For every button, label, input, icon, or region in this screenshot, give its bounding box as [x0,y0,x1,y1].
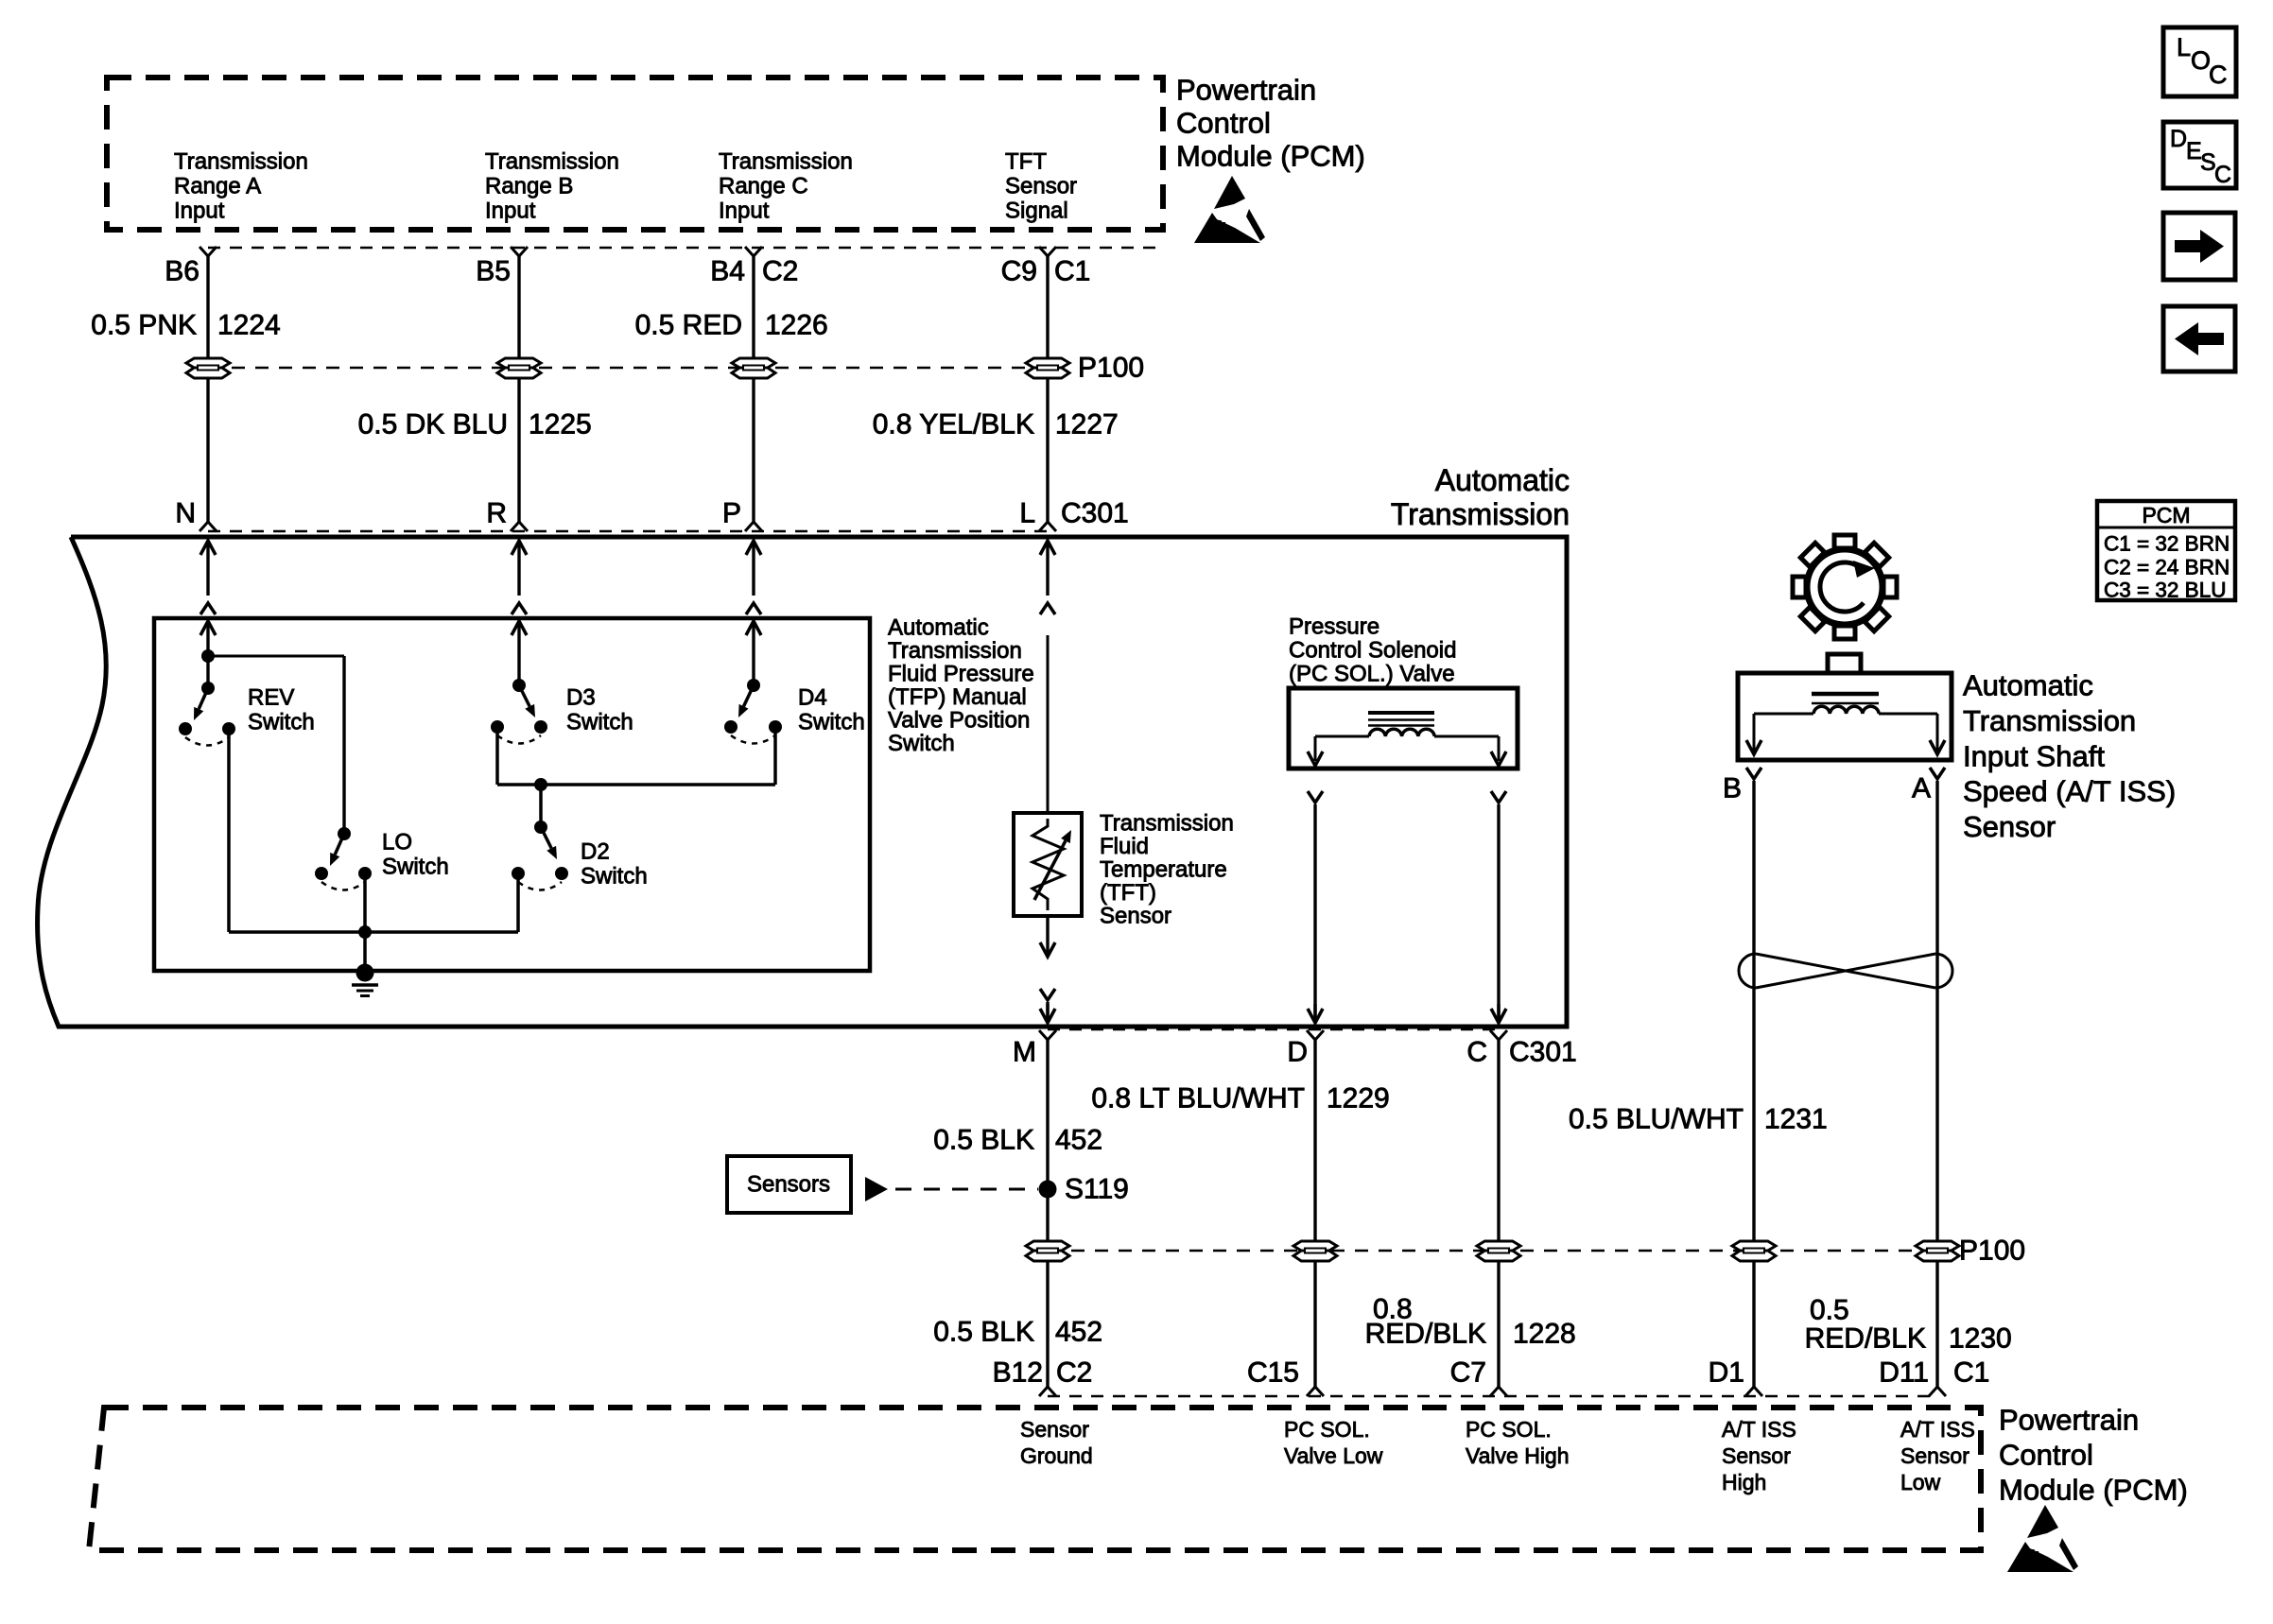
pin function label: Transmission Range C Input [719,149,853,224]
fork D [1307,1030,1324,1040]
svg-text:B6: B6 [165,256,200,287]
label Pressure Control Solenoid (PC SOL.) Valve [1289,614,1456,687]
svg-text:RED/BLK: RED/BLK [1805,1323,1926,1355]
svg-text:(PC SOL.) Valve: (PC SOL.) Valve [1289,662,1455,687]
svg-text:C1 = 32 BRN: C1 = 32 BRN [2104,532,2230,556]
svg-text:O: O [2191,46,2211,75]
svg-text:1224: 1224 [217,310,281,341]
svg-text:Sensor: Sensor [1100,904,1171,929]
D4 switch [724,679,782,744]
svg-text:1225: 1225 [529,409,592,441]
REV switch [179,649,235,746]
svg-text:B12: B12 [993,1357,1043,1389]
previous arrow button box [2163,306,2235,371]
svg-text:Pressure: Pressure [1289,614,1379,640]
svg-text:M: M [1013,1037,1036,1068]
connector P100 lens on wire 1231 [1732,1241,1776,1261]
svg-text:Switch: Switch [581,864,648,890]
svg-text:0.5 PNK: 0.5 PNK [91,310,197,341]
svg-text:0.5 DK BLU: 0.5 DK BLU [358,409,508,441]
svg-text:D11: D11 [1879,1357,1929,1389]
Sensors reference box [727,1156,851,1213]
svg-text:REV: REV [248,685,294,711]
connector P100 lens on wire 1228 [1477,1241,1520,1261]
svg-text:C1: C1 [1054,256,1090,287]
svg-text:D4: D4 [798,685,827,711]
svg-text:Signal: Signal [1005,199,1068,224]
wire 1226 (B4 to P) [745,247,762,531]
svg-text:Range A: Range A [174,174,261,199]
svg-text:Input Shaft: Input Shaft [1963,739,2105,772]
wire into D3 switch [512,621,527,685]
wire 1225 (B5 to R) [511,247,528,531]
svg-text:Control: Control [1176,107,1271,140]
wire into REV switch [200,621,216,656]
wire label 0.5 PNK 1224 [91,310,280,341]
svg-text:Control: Control [1999,1439,2093,1472]
svg-text:Ground: Ground [1020,1443,1093,1468]
svg-text:Input: Input [719,199,770,224]
svg-text:Valve High: Valve High [1466,1443,1570,1468]
PC SOL valve high lead (C) [1434,736,1506,766]
wire 1227 (C9 to L) [1039,247,1056,531]
svg-text:D1: D1 [1709,1357,1744,1389]
svg-text:C: C [1466,1037,1487,1068]
connector P100 (top, dashed pass-through line) [208,367,1048,370]
svg-text:A/T ISS: A/T ISS [1722,1417,1796,1442]
svg-text:High: High [1722,1470,1766,1494]
svg-text:1229: 1229 [1327,1083,1390,1114]
svg-text:C: C [2214,162,2231,188]
svg-text:L: L [1019,498,1035,529]
label Automatic Transmission Input Shaft Speed (A/T ISS) Sensor [1963,669,2176,844]
connector C301 line (bottom, thin dashed) [1048,1028,1499,1031]
svg-text:B5: B5 [476,256,511,287]
wire label 0.8 RED/BLK 1228 [1365,1294,1576,1350]
svg-text:N: N [175,498,196,529]
svg-text:D2: D2 [581,839,610,865]
label D2 Switch [581,839,648,890]
PCM module box (bottom, dashed) [89,1408,1981,1550]
svg-text:Transmission: Transmission [888,638,1022,664]
svg-text:Valve Position: Valve Position [888,708,1030,734]
label D4 Switch [798,685,865,735]
connector line at PCM (bottom, thin dashed) [1048,1395,1937,1398]
svg-text:Sensor: Sensor [1963,810,2056,843]
svg-text:Sensor: Sensor [1020,1417,1089,1442]
svg-text:P100: P100 [1959,1235,2025,1267]
twisted pair symbol [1739,954,1952,988]
svg-text:L: L [2177,33,2191,61]
connector P100 lens on wire 1224 [186,358,230,378]
connector P100 lens on wire 452 [1026,1241,1069,1261]
svg-text:0.5: 0.5 [1810,1295,1849,1326]
svg-text:A: A [1912,773,1931,804]
svg-text:C: C [2209,60,2228,89]
svg-text:1231: 1231 [1764,1104,1828,1135]
svg-text:(TFT): (TFT) [1100,880,1156,906]
svg-text:1230: 1230 [1949,1323,2012,1355]
D2 switch [512,785,568,890]
svg-text:R: R [486,498,507,529]
svg-text:Sensor: Sensor [1722,1443,1791,1468]
splice S119 [1039,1174,1129,1205]
svg-text:Automatic: Automatic [888,615,989,641]
Pressure Control Solenoid (PC SOL.) Valve box [1289,688,1518,769]
wire bus D3-D4 [497,778,775,791]
svg-text:0.8 LT BLU/WHT: 0.8 LT BLU/WHT [1091,1083,1305,1114]
PC SOL coil [1368,713,1434,736]
svg-text:RED/BLK: RED/BLK [1365,1319,1486,1350]
svg-text:0.8 YEL/BLK: 0.8 YEL/BLK [873,409,1034,441]
svg-text:Range B: Range B [485,174,573,199]
svg-text:Switch: Switch [566,710,633,735]
svg-text:1227: 1227 [1055,409,1119,441]
svg-text:Switch: Switch [382,855,449,880]
wire label 0.8 YEL/BLK 1227 [873,409,1119,441]
arrow from Sensors box [865,1177,888,1201]
connector P100 lens on wire 1227 [1026,358,1069,378]
wire entry arrows at AT box (1225/R) [512,541,527,614]
svg-text:Fluid Pressure: Fluid Pressure [888,662,1034,687]
svg-text:S119: S119 [1065,1174,1129,1205]
ESD sensitive-device symbol (bottom) [2007,1505,2078,1572]
label Powertrain Control Module (PCM) bottom [1999,1404,2188,1507]
LOC button box [2163,27,2236,96]
wire PC SOL high to AT bottom [1491,791,1506,1023]
svg-text:TFT: TFT [1005,149,1047,175]
svg-text:D3: D3 [566,685,596,711]
connector P100 lens on wire 1230 [1916,1241,1959,1261]
svg-text:C2 = 24 BRN: C2 = 24 BRN [2104,556,2230,579]
pin function label PC SOL. Valve Low [1284,1417,1383,1468]
wire label 0.5 BLK 452 (lower) [933,1317,1102,1348]
svg-text:1228: 1228 [1513,1319,1576,1350]
svg-text:LO: LO [382,830,412,855]
svg-text:Sensors: Sensors [747,1172,830,1198]
svg-text:Valve Low: Valve Low [1284,1443,1383,1468]
svg-text:A/T ISS: A/T ISS [1900,1417,1975,1442]
svg-text:C7: C7 [1450,1357,1486,1389]
svg-text:Switch: Switch [798,710,865,735]
svg-text:0.5 BLK: 0.5 BLK [933,1317,1034,1348]
svg-text:C3 = 32 BLU: C3 = 32 BLU [2104,579,2226,602]
connector P100 lens on wire 1225 [497,358,541,378]
ISS lead B [1746,714,1813,754]
wire into D4 switch [746,621,761,685]
svg-text:Range C: Range C [719,174,808,199]
wire label 0.5 BLK 452 (upper) [933,1125,1102,1156]
svg-text:Sensor: Sensor [1005,174,1077,199]
svg-text:Transmission: Transmission [719,149,853,175]
svg-text:PCM: PCM [2142,503,2190,527]
ESD sensitive-device symbol (top) [1194,176,1265,243]
label Automatic Transmission Fluid Pressure (TFP) Manual Valve Position Switch [888,615,1034,757]
Automatic Transmission enclosure box [38,537,1567,1027]
svg-text:Automatic: Automatic [1435,463,1570,497]
svg-text:Speed (A/T ISS): Speed (A/T ISS) [1963,775,2176,808]
svg-text:C301: C301 [1509,1037,1577,1068]
wire TFT sensor to M (with arrows) [1040,916,1055,1023]
pin function label: Transmission Range B Input [485,149,619,224]
wire 1231 (B to D1) [1745,768,1762,1396]
PCM connector legend box [2097,501,2235,602]
svg-text:0.5 BLK: 0.5 BLK [933,1125,1034,1156]
pin function label PC SOL. Valve High [1466,1417,1570,1468]
svg-text:Sensor: Sensor [1900,1443,1969,1468]
wire D4 right contact to bus [773,727,777,785]
svg-text:PC SOL.: PC SOL. [1284,1417,1370,1442]
wire PC SOL low to AT bottom [1308,791,1323,1023]
wire bottom bus of TFP switch [229,925,518,939]
gear / rotating shaft icon [1793,535,1897,639]
wire label 0.5 RED 1226 [635,310,828,341]
svg-text:Module (PCM): Module (PCM) [1176,140,1365,173]
pin function label A/T ISS Sensor High [1722,1417,1796,1494]
PC SOL valve low lead (D) [1308,736,1369,766]
svg-text:D: D [2170,126,2187,152]
svg-text:B4: B4 [710,256,745,287]
TFT sensor (thermistor) [1014,813,1082,916]
wire LO right contact down [363,873,367,932]
svg-text:0.5 RED: 0.5 RED [635,310,742,341]
wire label 0.5 RED/BLK 1230 [1805,1295,2012,1355]
next arrow button box [2163,213,2235,280]
svg-text:C1: C1 [1953,1357,1989,1389]
A/T ISS sensor box [1738,654,1952,760]
connector line (PCM harness, thin dashed) [208,247,1163,250]
svg-text:Powertrain: Powertrain [1176,74,1316,107]
LO switch [315,827,372,890]
svg-text:Transmission: Transmission [485,149,619,175]
wire entry arrows at AT box (1224/N) [200,541,216,614]
ground (TFP switch common) [352,932,378,996]
fork M [1039,1030,1056,1040]
wire 1229 (D to C15) [1307,1040,1324,1396]
wire label 0.5 BLU/WHT 1231 [1569,1104,1828,1135]
svg-text:P100: P100 [1078,353,1144,384]
label Powertrain Control Module (PCM) top [1176,74,1365,173]
svg-text:C2: C2 [762,256,798,287]
label REV Switch [248,685,315,735]
label Automatic Transmission [1391,463,1570,531]
fork C [1490,1030,1507,1040]
ISS lead A [1879,714,1945,754]
svg-text:Fluid: Fluid [1100,834,1149,859]
svg-text:B: B [1723,773,1742,804]
svg-text:P: P [722,498,741,529]
svg-text:Input: Input [485,199,536,224]
svg-text:1226: 1226 [765,310,828,341]
pin function label Sensor Ground [1020,1417,1093,1468]
D3 switch [491,679,547,744]
wire 1228 (C to C7) [1490,1040,1507,1396]
svg-text:Switch: Switch [248,710,315,735]
wire 1230 (A to D11) [1929,768,1946,1396]
svg-text:Low: Low [1900,1470,1941,1494]
label LO Switch [382,830,449,880]
label Transmission Fluid Temperature (TFT) Sensor [1100,811,1234,929]
svg-text:C301: C301 [1061,498,1129,529]
svg-text:Control Solenoid: Control Solenoid [1289,638,1456,664]
svg-text:(TFP) Manual: (TFP) Manual [888,684,1027,710]
pin function label: TFT Sensor Signal [1005,149,1077,224]
svg-text:Module (PCM): Module (PCM) [1999,1474,2188,1507]
svg-text:0.5 BLU/WHT: 0.5 BLU/WHT [1569,1104,1744,1135]
dashed lead to S119 [895,1188,1038,1191]
wire label 0.5 DK BLU 1225 [358,409,592,441]
label D3 Switch [566,685,633,735]
connector P100 lens on wire 1226 [732,358,775,378]
svg-text:Transmission: Transmission [1391,497,1570,531]
TFP manual valve position switch box [154,618,870,971]
wire entry arrows at AT box (1226/P) [746,541,761,614]
PCM module box (top, dashed) [107,78,1163,230]
wire entry arrows at AT box (1227/L) [1040,541,1055,614]
svg-text:PC SOL.: PC SOL. [1466,1417,1552,1442]
svg-text:Transmission: Transmission [1963,704,2136,737]
wire REV right contact down [227,729,231,932]
connector P100 lens on wire 1229 [1293,1241,1337,1261]
wire 1224 (B6 to N) [200,247,217,531]
wire D2 left contact down [516,873,520,932]
svg-text:452: 452 [1055,1125,1102,1156]
wire REV junction to LO switch [208,656,344,834]
svg-text:C2: C2 [1056,1357,1092,1389]
svg-text:Input: Input [174,199,225,224]
pin function label A/T ISS Sensor Low [1900,1417,1975,1494]
wire label 0.8 LT BLU/WHT 1229 [1091,1083,1389,1114]
wire D3 left contact to bus [495,727,499,785]
connector C301 line (top, thin dashed) [208,530,1051,533]
svg-text:D: D [1287,1037,1308,1068]
svg-text:Transmission: Transmission [174,149,308,175]
pin function label: Transmission Range A Input [174,149,308,224]
wire 452 (M to B12) [1039,1040,1056,1396]
svg-text:Temperature: Temperature [1100,857,1227,883]
connector P100 (bottom, dashed pass-through line) [1048,1250,1937,1253]
wire 1227 L to TFT sensor [1047,635,1050,813]
svg-text:Transmission: Transmission [1100,811,1234,837]
ISS coil [1812,694,1879,714]
svg-text:Powertrain: Powertrain [1999,1404,2139,1437]
svg-text:C9: C9 [1001,256,1037,287]
svg-text:Switch: Switch [888,731,955,756]
DESC button box [2163,122,2236,188]
svg-text:C15: C15 [1247,1357,1299,1389]
svg-text:452: 452 [1055,1317,1102,1348]
svg-text:Automatic: Automatic [1963,669,2093,702]
